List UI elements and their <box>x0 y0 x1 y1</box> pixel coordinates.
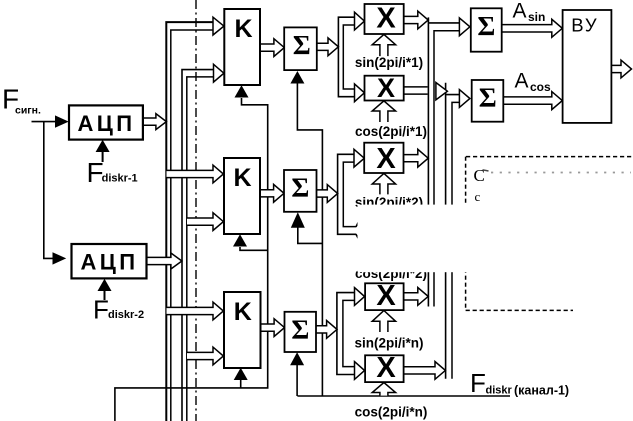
multiplier X1 <box>365 4 404 34</box>
node open arrow R2 to Sigma5 <box>459 90 470 108</box>
dash-dot bus boundary line <box>195 0 197 421</box>
wire double line Sigma4 to VU with A_sin <box>502 19 563 37</box>
svg-text:X: X <box>376 352 396 384</box>
accumulator Sigma3 <box>285 312 317 352</box>
wire open arrow K1 to Sigma1 <box>260 39 284 57</box>
wire open arrow ADC2 output to bus2 <box>146 253 182 269</box>
accumulator Sigma1 <box>284 27 317 70</box>
svg-text:Σ: Σ <box>477 10 495 41</box>
svg-text:A: A <box>513 0 527 23</box>
node solid arrow into ADC1 <box>55 115 69 127</box>
node solid arrow into K2 bottom <box>233 234 247 246</box>
wire open arrow X5 output to R1 <box>404 288 429 306</box>
wire Sigma3 output bus to X5/X6 (double elbow) <box>337 293 355 375</box>
wire double line Sigma5 to VU with A_cos <box>503 92 562 110</box>
svg-text:K: K <box>234 298 252 326</box>
svg-text:АЦП: АЦП <box>81 250 139 275</box>
wire open arrow X1 output to R1 <box>404 11 429 29</box>
wire open arrow Sigma1 output to bus <box>317 38 339 56</box>
multiplier X5 <box>365 283 404 310</box>
wire bus2 from ADC2 (double line with elbow into K1 second input) <box>182 70 214 421</box>
svg-text:K: K <box>233 164 251 192</box>
multiplier X3 <box>364 143 403 173</box>
wire open arrow ADC1 output to bus1 <box>143 114 167 130</box>
svg-text:cos(2pi/i*n): cos(2pi/i*n) <box>355 405 428 420</box>
multiplier K1 <box>224 9 260 85</box>
wire Sigma2 output bus to X3 and severed stub toward erased X4 <box>338 154 357 234</box>
multiplier X2 <box>365 76 404 101</box>
svg-text:sin(2pi/i*n): sin(2pi/i*n) <box>354 335 423 350</box>
svg-text:diskr: diskr <box>486 385 513 397</box>
svg-text:X: X <box>376 2 396 34</box>
wire sum clock network F diskr kanal-1 rail <box>297 395 510 397</box>
wire branch to K2 clock <box>240 247 268 250</box>
node open arrow bus2 to K1 <box>214 64 224 82</box>
svg-text:(канал-1): (канал-1) <box>514 384 569 398</box>
dashed synchronization box <box>466 156 633 158</box>
wire open arrow X3 output to R1 <box>404 149 429 167</box>
wire collector bus R1 (sin products) with arrow into Sigma4 <box>428 17 459 306</box>
svg-text:Σ: Σ <box>479 82 497 113</box>
svg-text:X: X <box>377 73 395 103</box>
wire F signal input with branch <box>32 121 57 123</box>
wire open up-arrow cos generator into X2 <box>372 101 395 122</box>
wire bus1 from ADC1 (double line with elbow into K1 top input) <box>166 22 213 421</box>
svg-text:cos: cos <box>530 80 551 94</box>
wire F diskr-2 arrow into ADC2 <box>104 290 106 300</box>
node open arrow into X1 input <box>355 12 365 30</box>
wire open arrow Sigma3 output to bus <box>316 321 337 339</box>
svg-text:Σ: Σ <box>291 172 309 203</box>
svg-text:diskr-1: diskr-1 <box>102 173 138 185</box>
svg-text:сигн.: сигн. <box>15 105 41 117</box>
node solid arrow into K1 bottom <box>235 85 249 97</box>
svg-text:K: K <box>234 15 252 43</box>
wire branch to K3 clock <box>240 380 242 388</box>
wire open arrow X2 output to R2 <box>404 87 428 94</box>
wire branch to Sigma3 clock <box>296 365 298 396</box>
svg-text:F: F <box>470 368 486 398</box>
wire open arrow VU output <box>611 60 631 78</box>
svg-text:с: с <box>475 189 481 204</box>
wire F diskr-1 arrow into ADC1 <box>102 151 104 162</box>
node open arrow into X6 input <box>355 362 365 380</box>
svg-text:Σ: Σ <box>291 314 309 345</box>
svg-text:ВУ: ВУ <box>571 14 598 35</box>
ADC U1 АЦП <box>69 105 143 139</box>
node severed arrowhead remnant hooks <box>356 222 358 239</box>
node open arrow into X5 input <box>355 288 365 306</box>
node solid arrow into Sigma3 bottom <box>290 352 304 365</box>
wire riser to Sigma1 clock <box>297 83 322 396</box>
multiplier K2 <box>224 158 260 234</box>
node open arrow bus1 to K1 <box>213 17 224 35</box>
wire open up-arrow sin generator into X5 <box>372 311 395 333</box>
svg-text:sin: sin <box>528 10 545 24</box>
svg-text:АЦП: АЦП <box>78 111 136 136</box>
multiplier K3 <box>224 292 261 368</box>
wire Sigma1 output bus to X1/X2 (double elbow) <box>338 17 354 97</box>
wire open arrow K2 to Sigma2 <box>260 184 284 202</box>
wire open arrow X6 output to R2 <box>404 362 446 380</box>
wire branch to Sigma2 clock <box>298 228 323 244</box>
output block VU ВУ <box>563 10 612 123</box>
accumulator Sigma2 <box>284 170 317 212</box>
node open arrow into X2 input <box>355 84 365 102</box>
node erased text remnant dots <box>491 172 631 174</box>
wire open arrow bus1 to K2 <box>167 165 224 183</box>
accumulator Sigma5 A_cos <box>472 80 504 122</box>
wire open arrow bus2 to K3 <box>187 347 223 365</box>
wire open arrow K3 to Sigma3 <box>261 319 285 337</box>
accumulator Sigma4 A_sin <box>471 8 502 51</box>
node solid arrow into ADC2 <box>53 252 67 264</box>
node open arrow R1 to Sigma4 <box>459 18 470 36</box>
svg-text:cos(2pi/i*1): cos(2pi/i*1) <box>355 124 427 139</box>
ADC U2 АЦП <box>72 244 147 278</box>
node solid arrow into K3 bottom <box>234 368 248 380</box>
svg-text:sin(2pi/i*1): sin(2pi/i*1) <box>355 55 423 70</box>
node solid arrow into Sigma2 bottom <box>291 212 305 228</box>
multiplier X6 <box>365 355 404 382</box>
svg-text:X: X <box>376 143 396 175</box>
svg-text:diskr-2: diskr-2 <box>108 309 144 321</box>
svg-text:Σ: Σ <box>293 29 311 60</box>
wire open up-arrow sin generator into X1 <box>372 34 395 56</box>
wire open arrow bus2 to K2 <box>187 213 223 231</box>
wire open up-arrow sin generator into X3 <box>372 173 395 194</box>
svg-text:С: С <box>474 166 485 185</box>
svg-text:F: F <box>93 295 109 325</box>
wire open up-arrow cos generator into X6 <box>372 383 395 396</box>
wire collector bus R2 (cos products) with arrow into Sigma5 <box>446 83 460 379</box>
node open arrow into X3 input <box>354 149 364 167</box>
white eraser patch over former X4 area <box>358 205 473 273</box>
wire open arrow bus1 to K3 <box>167 302 224 320</box>
node solid arrow into Sigma1 bottom <box>290 71 304 84</box>
wire K clock network: bottom rail with drop at left <box>115 98 268 421</box>
svg-text:X: X <box>376 280 396 312</box>
wire open arrow Sigma2 output to bus <box>317 185 338 203</box>
svg-text:A: A <box>515 70 529 93</box>
